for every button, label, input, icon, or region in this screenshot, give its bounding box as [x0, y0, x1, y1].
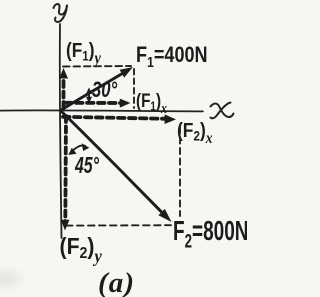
label 30 degrees — [92, 78, 117, 103]
y-axis label y (cursive) — [54, 4, 68, 22]
paper smudge bottom-left — [0, 0, 1, 1]
vector F1 — [62, 73, 124, 110]
component arrow (F1)y — [62, 75, 66, 108]
svg-text:30°: 30° — [92, 78, 117, 103]
svg-text:F2=800N: F2=800N — [173, 215, 247, 252]
label F1 = 400N — [136, 43, 208, 70]
component arrow (F1)x — [65, 101, 123, 105]
svg-text:(F2)y: (F2)y — [60, 233, 103, 266]
component arrow (F2)x — [63, 117, 168, 119]
svg-text:(a): (a) — [98, 267, 134, 297]
vector F2 — [62, 112, 163, 214]
dashed construction line top (F1 y-projection) — [63, 65, 131, 68]
dashed construction line right of F1 — [133, 69, 135, 108]
angle marker 30 degrees (double arrow) — [88, 93, 90, 100]
y-axis — [60, 24, 62, 238]
label (F2)y — [60, 233, 103, 266]
svg-text:F1=400N: F1=400N — [136, 43, 208, 70]
svg-text:(F1)x: (F1)x — [136, 89, 167, 116]
dashed construction line bottom (F2 y-projection) — [66, 224, 171, 226]
component arrow (F2)y — [63, 116, 67, 222]
label F2 = 800N — [173, 215, 248, 252]
svg-text:(F1)y: (F1)y — [66, 40, 102, 68]
label (F1)y — [66, 40, 102, 68]
svg-text:(F2)x: (F2)x — [177, 120, 213, 147]
label 45 degrees — [74, 153, 100, 179]
label (F1)x — [136, 89, 167, 116]
x-axis — [0, 110, 203, 111]
x-axis label x (cursive) — [211, 103, 234, 119]
label (F2)x — [177, 120, 213, 147]
dashed construction line right of F2 — [179, 127, 181, 216]
svg-text:45°: 45° — [74, 153, 100, 179]
angle marker 45 degrees (curved double arrow) — [72, 145, 86, 152]
